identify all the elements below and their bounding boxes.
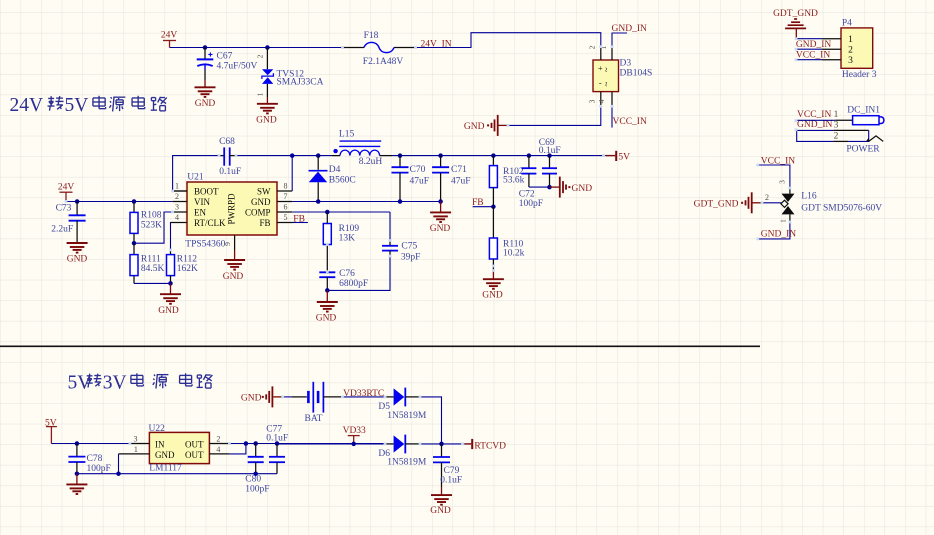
svg-text:GND: GND [251, 197, 271, 207]
net label VD33RTC [342, 389, 385, 399]
wire D3 pin1 GND_IN stub [612, 33, 627, 47]
svg-text:C67: C67 [217, 52, 233, 62]
svg-text:GND: GND [155, 450, 175, 460]
ground (U21 pin9) [223, 250, 245, 282]
svg-text:VD33: VD33 [343, 426, 366, 436]
svg-text:Header 3: Header 3 [842, 70, 877, 80]
wire divider bottom [134, 282, 171, 284]
svg-text:R112: R112 [177, 254, 197, 264]
svg-text:RT/CLK: RT/CLK [194, 218, 226, 228]
svg-text:EN: EN [194, 207, 206, 217]
svg-text:47uF: 47uF [451, 176, 471, 186]
junction C80 top [253, 441, 258, 446]
resistor R110 [489, 207, 524, 271]
svg-text:LM1117: LM1117 [149, 464, 182, 474]
svg-text:GND: GND [241, 393, 262, 403]
svg-text:F2.1A48V: F2.1A48V [363, 57, 404, 67]
wire C72 C69 bottom [529, 186, 550, 188]
power port GND (D3 area) [464, 115, 508, 136]
svg-text:C78: C78 [87, 454, 103, 464]
svg-text:0.1uF: 0.1uF [539, 146, 561, 156]
svg-text:C76: C76 [339, 269, 355, 279]
capacitor C79 [433, 444, 462, 487]
svg-text:TPS54360: TPS54360 [185, 240, 225, 250]
svg-text:13K: 13K [339, 233, 356, 243]
junction R108 tap [132, 199, 137, 204]
svg-text:BOOT: BOOT [194, 186, 219, 196]
svg-text:53.6k: 53.6k [503, 176, 525, 186]
connector DC_IN1 POWER [797, 105, 884, 154]
wire L16 top [758, 165, 790, 188]
svg-text:24V_IN: 24V_IN [421, 40, 452, 50]
inductor L15 [332, 130, 392, 167]
wire D6 to node [420, 443, 442, 445]
svg-text:2: 2 [765, 193, 769, 202]
power port 5V [606, 151, 630, 163]
junction C78 bottom [75, 471, 80, 476]
svg-text:GDT SMD5076-60V: GDT SMD5076-60V [801, 203, 882, 213]
junction C71 top [438, 153, 443, 158]
junction C76 bottom [325, 288, 330, 293]
svg-text:3: 3 [777, 180, 786, 184]
fuse F18 [344, 31, 414, 67]
net label VCC_IN (L16) [761, 156, 795, 166]
wire SW rail to L15 [292, 155, 332, 157]
net label GDT_GND (P4) [773, 9, 818, 19]
capacitor C78 [68, 444, 110, 474]
svg-text:84.5K: 84.5K [141, 264, 165, 274]
svg-text:VIN: VIN [194, 197, 210, 207]
junction pin4 [244, 441, 249, 446]
svg-text:R108: R108 [141, 211, 162, 221]
svg-text:39pF: 39pF [401, 253, 421, 263]
wire RT/CLK to R112 [171, 223, 188, 251]
svg-text:1: 1 [256, 92, 265, 96]
svg-text:C70: C70 [410, 165, 426, 175]
bridge rectifier D3 [588, 45, 653, 106]
net label GND_IN (D3) [612, 24, 647, 34]
wire 24V_IN to D3 [414, 33, 601, 48]
svg-text:3: 3 [848, 56, 853, 66]
svg-text:3: 3 [134, 435, 138, 444]
svg-text:9: 9 [223, 242, 232, 246]
wire VIN rail [66, 201, 173, 203]
svg-text:SW: SW [257, 186, 271, 196]
capacitor C76 [319, 269, 368, 290]
svg-text:24V: 24V [161, 31, 178, 41]
junction divider bottom [168, 281, 173, 286]
ground (C78) [66, 474, 87, 494]
svg-text:100pF: 100pF [519, 199, 543, 209]
svg-text:BAT: BAT [305, 414, 323, 424]
net label VCC_IN (P4) [796, 50, 830, 60]
svg-text:2: 2 [588, 45, 597, 49]
wire L16 bottom [758, 222, 790, 239]
svg-text:GND: GND [316, 314, 337, 324]
svg-text:D4: D4 [329, 165, 341, 175]
capacitor C71 [432, 156, 470, 202]
junction R109 top [325, 210, 330, 215]
svg-text:7: 7 [284, 192, 288, 201]
wire D3 pin3 to GND [508, 106, 601, 125]
net label FB (pin5) [293, 214, 308, 224]
svg-text:GND: GND [430, 506, 451, 516]
junction EN node [132, 241, 137, 246]
IC U21 TPS54360 [171, 173, 293, 251]
earth GDT_GND (P4) [785, 19, 806, 39]
wire bottom gnd rail [77, 473, 277, 475]
wire C68 to SW node [236, 155, 292, 157]
wire node to RTCVD [442, 443, 465, 445]
svg-text:1N5819M: 1N5819M [387, 411, 427, 421]
diode D4 B560C [309, 156, 356, 202]
svg-text:100pF: 100pF [87, 464, 111, 474]
svg-text:D3: D3 [620, 59, 632, 69]
svg-text:4.7uF/50V: 4.7uF/50V [217, 62, 258, 72]
junction D4 tap [316, 153, 321, 158]
svg-text:3: 3 [588, 99, 597, 103]
svg-text:2: 2 [256, 54, 265, 58]
wire D5 to node [420, 397, 442, 444]
ground (TVS12) [256, 97, 278, 126]
svg-text:GDT_GND: GDT_GND [773, 9, 818, 19]
svg-text:F18: F18 [364, 31, 379, 41]
net label GND_IN (P4) [796, 40, 831, 50]
svg-text:8.2uH: 8.2uH [359, 157, 383, 167]
svg-text:3V: 3V [103, 373, 127, 394]
junction VD33 [351, 442, 356, 447]
svg-text:GND_IN: GND_IN [797, 120, 832, 130]
svg-text:5: 5 [284, 213, 288, 222]
gas discharge tube L16 [765, 180, 882, 223]
svg-text:~: ~ [601, 81, 611, 86]
ground (C73) [67, 243, 88, 265]
svg-text:GND_IN: GND_IN [612, 24, 647, 34]
capacitor C73 [51, 202, 85, 244]
capacitor C69 [539, 138, 561, 187]
wire EN node [134, 212, 187, 243]
wire COMP net [292, 212, 390, 241]
svg-text:1N5819M: 1N5819M [387, 458, 427, 468]
svg-text:0.1uF: 0.1uF [266, 434, 288, 444]
junction D4 bottom [316, 199, 321, 204]
ground (output rail) [430, 202, 451, 235]
svg-text:24V: 24V [58, 182, 75, 192]
title 24V to 5V power circuit [10, 95, 167, 116]
svg-text:10.2k: 10.2k [503, 248, 525, 258]
svg-text:2.2uF: 2.2uF [51, 225, 73, 235]
net label GND_IN (L16) [761, 229, 796, 239]
svg-text:R109: R109 [339, 224, 360, 234]
wire OUT rail [229, 443, 385, 445]
svg-text:~: ~ [601, 67, 611, 72]
svg-text:FB: FB [259, 218, 270, 228]
battery BAT [283, 382, 343, 424]
junction FB node [491, 204, 496, 209]
ground (C67) [195, 80, 216, 109]
capacitor C70 [392, 156, 430, 202]
svg-text:4: 4 [216, 445, 220, 454]
svg-text:COMP: COMP [245, 207, 271, 217]
svg-text:SMAJ33CA: SMAJ33CA [277, 77, 324, 87]
junction C71 bottom [438, 199, 443, 204]
junction C77 top [275, 441, 280, 446]
section divider line [0, 345, 760, 347]
svg-text:47uF: 47uF [410, 176, 430, 186]
net label VCC_IN (D3) [612, 106, 647, 127]
junction C78 top [75, 441, 80, 446]
svg-text:C68: C68 [219, 137, 235, 147]
svg-text:VCC_IN: VCC_IN [796, 50, 830, 60]
svg-text:4: 4 [175, 213, 179, 222]
resistor R112 [167, 250, 199, 283]
svg-text:162K: 162K [177, 264, 198, 274]
svg-text:1: 1 [848, 35, 853, 45]
wire U22 pin1 down [118, 454, 120, 474]
svg-text:0.1uF: 0.1uF [440, 476, 462, 486]
junction C70 bottom [398, 199, 403, 204]
wire L15 to 5V rail [392, 155, 606, 157]
svg-text:PWRPD: PWRPD [227, 193, 237, 225]
junction C80 bottom [253, 471, 258, 476]
svg-text:5V: 5V [65, 95, 89, 116]
junction pin1 rail [116, 471, 121, 476]
capacitor C75 [382, 241, 420, 263]
net label 5V (bottom) [45, 418, 57, 443]
capacitor C67 [197, 48, 258, 81]
capacitor C68 [219, 137, 241, 177]
capacitor C77 [266, 425, 288, 474]
svg-text:5V: 5V [618, 153, 630, 163]
svg-text:B560C: B560C [329, 176, 356, 186]
svg-text:C72: C72 [519, 189, 535, 199]
junction C73 tap [75, 199, 80, 204]
wire pin4 up [229, 444, 246, 454]
svg-text:L16: L16 [801, 192, 817, 202]
svg-text:VD33RTC: VD33RTC [343, 389, 384, 399]
ground (C76) [316, 290, 338, 323]
capacitor C80 [245, 444, 269, 495]
wire GND rail [292, 201, 440, 203]
svg-text:6800pF: 6800pF [339, 279, 368, 289]
resistor R102 [489, 156, 524, 207]
svg-text:GND: GND [158, 306, 179, 316]
svg-text:U22: U22 [149, 424, 166, 434]
svg-text:DC_IN1: DC_IN1 [847, 105, 880, 115]
svg-text:2: 2 [834, 132, 839, 142]
power port RTCVD [465, 439, 506, 452]
net label 24V_IN [421, 40, 452, 50]
svg-text:RTCVD: RTCVD [474, 441, 506, 451]
svg-text:C71: C71 [451, 165, 467, 175]
svg-text:GND: GND [482, 291, 503, 301]
svg-text:1: 1 [834, 110, 839, 120]
svg-text:VCC_IN: VCC_IN [797, 110, 831, 120]
wire C76 C75 bottom [327, 256, 390, 290]
svg-text:R111: R111 [141, 254, 161, 264]
svg-text:C73: C73 [56, 204, 72, 214]
wire VD33 rail [277, 443, 385, 445]
net label FB (R102) [472, 198, 493, 208]
svg-text:OUT: OUT [185, 450, 204, 460]
svg-text:3: 3 [834, 120, 839, 130]
net label 24V (left) [58, 182, 75, 201]
junction C67 tap [203, 45, 208, 50]
pin hotspot markers [65, 37, 798, 445]
junction C70 top [398, 153, 403, 158]
svg-text:8: 8 [284, 182, 288, 191]
svg-text:DB104S: DB104S [620, 69, 653, 79]
svg-text:GND: GND [256, 116, 277, 126]
ground (R111 R112) [158, 283, 181, 315]
svg-text:GND_IN: GND_IN [796, 40, 831, 50]
svg-text:0.1uF: 0.1uF [219, 167, 241, 177]
wire SW pin up [291, 156, 293, 191]
junction output node [439, 442, 444, 447]
svg-text:P4: P4 [842, 19, 852, 29]
svg-text:3: 3 [175, 203, 179, 212]
power port GDT_GND (L16) [694, 192, 762, 213]
net label VD33 [343, 426, 366, 444]
junction SW node [290, 153, 295, 158]
svg-text:C75: C75 [401, 241, 417, 251]
svg-text:GND: GND [572, 184, 593, 194]
TVS diode TVS12 [256, 48, 324, 98]
svg-text:100pF: 100pF [245, 485, 269, 495]
junction TVS tap [265, 45, 270, 50]
diode D6 1N5819M [378, 435, 427, 468]
svg-text:6: 6 [284, 203, 288, 212]
svg-text:GND_IN: GND_IN [761, 229, 796, 239]
svg-text:GND: GND [464, 122, 485, 132]
wire 24V to fuse [170, 47, 345, 49]
title 5V to 3V power circuit [68, 373, 213, 394]
svg-text:GND: GND [223, 272, 244, 282]
capacitor C72 [519, 156, 543, 209]
wire 5V to U22 [51, 443, 129, 445]
svg-text:GDT_GND: GDT_GND [694, 199, 739, 209]
junction R102 top [491, 153, 496, 158]
header P4 [822, 19, 877, 81]
wire BOOT to C68 [173, 156, 219, 191]
power port GND (BAT) [241, 386, 283, 407]
svg-text:U21: U21 [187, 173, 204, 183]
power port GND (C72 area) [550, 177, 593, 198]
resistor R109 [323, 212, 359, 272]
IC U22 LM1117 [119, 424, 230, 474]
svg-text:GND: GND [67, 255, 88, 265]
junction C72 top [527, 153, 532, 158]
svg-text:2: 2 [216, 435, 220, 444]
resistor R108 [130, 202, 162, 244]
ground (R110) [482, 271, 504, 301]
ground (C79) [430, 487, 452, 516]
svg-text:2: 2 [175, 192, 179, 201]
junction C69 bottom [547, 185, 552, 190]
svg-text:2: 2 [848, 46, 853, 56]
wire P4 pin1 [796, 38, 822, 40]
net label 24V [161, 31, 178, 48]
svg-text:L15: L15 [339, 130, 355, 140]
svg-text:1: 1 [134, 445, 138, 454]
svg-text:GND: GND [430, 224, 451, 234]
svg-text:VCC_IN: VCC_IN [613, 117, 647, 127]
svg-text:IN: IN [155, 439, 165, 449]
svg-text:1: 1 [779, 219, 788, 223]
resistor R111 [130, 243, 165, 283]
svg-text:1: 1 [175, 182, 179, 191]
svg-text:GND: GND [195, 99, 216, 109]
svg-text:4: 4 [597, 99, 606, 103]
diode D5 1N5819M [378, 388, 427, 422]
svg-text:523K: 523K [141, 220, 162, 230]
svg-text:24V: 24V [10, 95, 44, 116]
junction C69 top [547, 153, 552, 158]
svg-text:POWER: POWER [846, 144, 880, 154]
svg-text:C80: C80 [245, 475, 261, 485]
svg-text:OUT: OUT [185, 439, 204, 449]
wire L16 pin2 [762, 202, 781, 204]
